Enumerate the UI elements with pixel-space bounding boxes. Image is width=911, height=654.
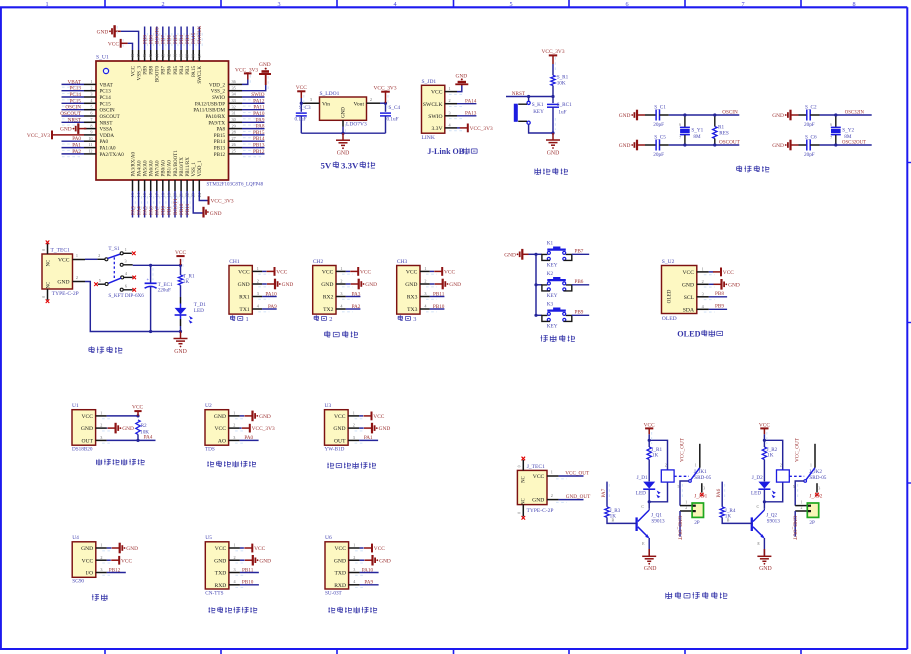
ground — [364, 423, 390, 434]
svg-text:1: 1 — [100, 410, 102, 415]
ground — [204, 207, 222, 218]
relay NC terminal — [816, 483, 818, 492]
svg-text:VCC_3V3: VCC_3V3 — [252, 426, 275, 432]
svg-text:20pF: 20pF — [653, 152, 664, 158]
svg-text:BOOT0: BOOT0 — [155, 66, 161, 83]
svg-text:GND_OUT: GND_OUT — [792, 516, 798, 541]
svg-text:PA7/A0: PA7/A0 — [155, 160, 161, 177]
svg-text:GND: GND — [57, 280, 69, 286]
power flag VCC — [759, 422, 770, 434]
U6 pin 2 GND — [334, 555, 366, 565]
transistor J_Q1 S9013 — [637, 504, 665, 546]
ground — [435, 279, 461, 290]
svg-text:PA3/RX/A0: PA3/RX/A0 — [130, 152, 136, 177]
wire — [669, 114, 740, 116]
svg-text:PA1/A0: PA1/A0 — [100, 146, 117, 152]
svg-text:S_U2: S_U2 — [662, 259, 675, 265]
svg-text:S_LDO1: S_LDO1 — [320, 91, 340, 97]
svg-text:GND: GND — [238, 282, 250, 288]
wire R2 to OUT — [137, 434, 139, 440]
svg-text:1: 1 — [257, 266, 259, 271]
svg-text:VCC_OUT: VCC_OUT — [795, 437, 801, 462]
svg-text:PA10/RX: PA10/RX — [206, 114, 226, 120]
svg-text:2: 2 — [370, 97, 372, 102]
MCU bottom pin 21 PB10/TX — [179, 157, 185, 218]
svg-text:VCC: VCC — [214, 426, 226, 432]
svg-text:1: 1 — [702, 266, 704, 271]
switch T_S1 S_KFT DIP-6X6 — [97, 246, 144, 299]
svg-text:1: 1 — [424, 266, 426, 271]
svg-text:PA2: PA2 — [352, 304, 361, 310]
svg-text:S_U1: S_U1 — [96, 55, 109, 61]
svg-text:GND: GND — [619, 143, 631, 149]
node bus top — [534, 253, 537, 256]
svg-text:2P: 2P — [809, 520, 815, 526]
power flag VCC — [364, 544, 385, 553]
S_U2 pin 4 SDA — [683, 304, 715, 314]
svg-text:1: 1 — [695, 463, 697, 467]
svg-text:GND: GND — [259, 414, 271, 420]
svg-text:NC: NC — [47, 260, 52, 267]
wire VCC down — [648, 434, 650, 440]
svg-text:PA10: PA10 — [265, 292, 277, 298]
wire — [107, 547, 112, 549]
svg-text:2: 2 — [353, 423, 355, 428]
U1 pin 1 VCC — [81, 410, 112, 420]
svg-text:7: 7 — [679, 136, 681, 140]
svg-text:PA1: PA1 — [364, 435, 373, 441]
svg-text:PC14: PC14 — [69, 92, 81, 98]
svg-text:PB11: PB11 — [433, 292, 445, 298]
svg-text:OSC32OUT: OSC32OUT — [842, 141, 866, 146]
svg-text:12: 12 — [88, 149, 92, 154]
svg-text:6: 6 — [625, 1, 628, 8]
relay lever — [804, 468, 815, 483]
svg-text:VCC_3V3: VCC_3V3 — [373, 86, 396, 92]
svg-text:SU-03T: SU-03T — [325, 590, 343, 596]
MCU pin 1 VBAT — [62, 79, 113, 88]
MCU bottom pin 19 PB1/A0 — [166, 160, 172, 218]
wire — [360, 547, 364, 549]
wire — [360, 559, 365, 561]
svg-text:NRST: NRST — [100, 120, 113, 126]
ground — [108, 423, 134, 434]
svg-text:PA3: PA3 — [352, 292, 361, 298]
capacitor T_EC1 220uF electrolytic — [145, 265, 173, 331]
node cap gnd — [551, 131, 554, 134]
svg-text:VCC: VCC — [276, 270, 287, 276]
svg-text:3: 3 — [257, 291, 259, 296]
svg-text:1K: 1K — [183, 279, 190, 285]
svg-text:U3: U3 — [325, 403, 332, 409]
wire pin4 PB10 — [430, 308, 445, 310]
svg-text:Vout: Vout — [354, 102, 365, 108]
module U3 body — [325, 403, 349, 453]
CH1 pin 3 RX1 — [239, 291, 269, 301]
node VCC/R2 — [136, 414, 139, 417]
wire K3 to PB9 — [572, 314, 589, 316]
svg-text:6: 6 — [90, 111, 92, 116]
wire pin2 GND — [430, 283, 435, 285]
J_TEC1 pin 2 GND — [547, 493, 567, 502]
resistor T_R1 1K — [178, 265, 195, 285]
svg-text:35: 35 — [232, 85, 236, 90]
node collector — [648, 500, 651, 503]
power flag VCC_3V3 — [541, 49, 564, 64]
resistor J_R3 1K base — [601, 482, 621, 520]
svg-text:PC15: PC15 — [100, 101, 112, 107]
svg-text:1: 1 — [449, 86, 451, 91]
connector CH3 body — [397, 259, 420, 314]
svg-text:DS18B20: DS18B20 — [72, 447, 93, 453]
U4 pin 2 VCC — [82, 555, 113, 565]
svg-text:GND: GND — [122, 426, 134, 432]
svg-text:S_Y1: S_Y1 — [691, 128, 703, 134]
T_TEC1 pin 1 VCC — [73, 253, 86, 259]
MCU pin 26 PB13 — [214, 142, 265, 151]
svg-text:1: 1 — [90, 79, 92, 84]
connector T_TEC1 TYPE-C body — [42, 248, 79, 297]
svg-text:PA10: PA10 — [362, 567, 374, 573]
ground — [267, 279, 293, 290]
svg-text:GND: GND — [210, 211, 222, 217]
ground — [60, 123, 86, 134]
wire PA10 — [360, 572, 379, 574]
svg-text:PA12: PA12 — [253, 98, 265, 104]
svg-text:GND: GND — [405, 282, 417, 288]
wire VDD_2 to VCC_3V3 — [235, 67, 258, 84]
svg-text:3: 3 — [353, 567, 355, 572]
MCU bottom pin 22 PB11/RX — [185, 157, 191, 218]
title voice broadcast module — [209, 607, 216, 613]
svg-text:3: 3 — [233, 435, 235, 440]
svg-text:3: 3 — [449, 110, 451, 115]
svg-text:0.1uF: 0.1uF — [387, 116, 399, 122]
ruler numbers top — [45, 1, 855, 8]
wire pin4 PA2 — [346, 308, 361, 310]
wire pin1 to switch — [85, 258, 97, 260]
wire GND_OUT down — [676, 511, 682, 541]
svg-text:NC: NC — [522, 476, 527, 483]
node res bottom — [713, 143, 716, 146]
wire — [106, 427, 109, 429]
power flag VCC — [350, 267, 371, 276]
svg-text:2: 2 — [665, 463, 667, 467]
label chuan-kou 3 — [398, 315, 403, 320]
svg-text:VCC: VCC — [533, 474, 545, 480]
svg-text:GND: GND — [619, 113, 631, 119]
NC pin top — [42, 244, 48, 255]
svg-text:VSS_2: VSS_2 — [211, 89, 226, 95]
svg-text:LDO7V3: LDO7V3 — [346, 122, 367, 128]
MCU pin 27 PB14 — [214, 136, 265, 145]
MCU bottom pin 24 VDD_1 — [197, 160, 203, 197]
MCU bottom pin 20 PB2/BOOT1 — [173, 150, 179, 218]
svg-text:2: 2 — [340, 279, 342, 284]
title voice recognition module — [328, 607, 335, 613]
push button K1 KEY — [542, 241, 572, 269]
node key branch — [527, 95, 530, 98]
svg-text:2: 2 — [98, 253, 100, 258]
CH3 pin 4 TX3 — [407, 304, 437, 314]
svg-text:SDA: SDA — [683, 307, 694, 313]
svg-text:PA10: PA10 — [253, 111, 265, 117]
svg-text:PA0: PA0 — [100, 139, 109, 145]
wire gnd to bus — [522, 253, 528, 255]
svg-text:PA2: PA2 — [72, 149, 81, 155]
svg-text:R2: R2 — [141, 423, 147, 429]
connector S_U2 OLED body — [662, 259, 697, 322]
MCU pin 33 PA12/USB/DP — [195, 98, 265, 107]
svg-text:PC15: PC15 — [69, 98, 81, 104]
svg-text:47: 47 — [136, 54, 141, 58]
capacitor S_C2 20pF — [799, 104, 820, 128]
MCU pin 12 PA2/TX/A0 — [62, 149, 125, 158]
MCU pin 3 PC14 — [62, 92, 112, 101]
MCU top pin 47 VSS_3 — [136, 50, 142, 80]
pin 2 Vout — [367, 97, 386, 103]
svg-text:TDS: TDS — [205, 447, 215, 453]
power flag VCC_3V3 — [460, 124, 493, 133]
svg-text:48: 48 — [130, 54, 135, 58]
MCU top pin 43 PB7 — [160, 27, 166, 75]
svg-text:U1: U1 — [72, 403, 79, 409]
svg-text:KEY: KEY — [533, 109, 544, 115]
svg-text:VCC: VCC — [759, 422, 770, 428]
svg-text:RX2: RX2 — [323, 295, 334, 301]
svg-text:20pF: 20pF — [804, 152, 815, 158]
svg-text:1: 1 — [340, 266, 342, 271]
ground — [642, 549, 656, 572]
svg-text:GND: GND — [126, 546, 138, 552]
S_U2 pin 1 VCC — [682, 266, 714, 276]
svg-text:CH3: CH3 — [397, 259, 408, 265]
svg-text:VCC_3V3: VCC_3V3 — [211, 199, 234, 205]
svg-text:3: 3 — [310, 97, 312, 102]
wire — [240, 547, 244, 549]
wire pin3 PB11 — [430, 296, 445, 298]
regulator S_LDO1 body — [320, 91, 368, 128]
svg-text:GND: GND — [334, 558, 346, 564]
transistor J_Q2 S9013 — [752, 504, 780, 546]
svg-text:U5: U5 — [205, 535, 212, 541]
wire VCC down — [763, 434, 765, 440]
svg-text:PB9: PB9 — [142, 66, 148, 75]
connector CH2 body — [313, 259, 336, 314]
svg-text:SWCLK: SWCLK — [197, 66, 203, 84]
wire pin1 VCC — [346, 270, 350, 272]
svg-text:PB5: PB5 — [173, 66, 179, 75]
ruler ticks top — [105, 0, 801, 7]
svg-text:3: 3 — [413, 316, 416, 323]
CH2 pin 3 RX2 — [323, 291, 353, 301]
svg-text:TXD: TXD — [335, 571, 347, 577]
MCU bottom pin 17 PA7/A0 — [154, 160, 160, 218]
svg-text:VCC_3V3: VCC_3V3 — [27, 133, 50, 139]
node bus — [534, 283, 537, 286]
NC pin bottom — [42, 289, 48, 300]
MCU bottom pin 13 PA3/RX/A0 — [130, 152, 136, 218]
title serial port circuit — [325, 331, 330, 337]
wire common to connector — [795, 481, 804, 506]
svg-text:SWIO: SWIO — [251, 92, 265, 98]
wire pin3 PB8 — [709, 296, 727, 298]
svg-text:PB15: PB15 — [253, 130, 265, 136]
svg-text:6: 6 — [125, 283, 127, 288]
wire — [820, 144, 872, 146]
relay NO terminal VCC_OUT — [680, 437, 700, 467]
svg-text:10: 10 — [88, 136, 92, 141]
MCU pin 8 VSSA — [84, 123, 113, 132]
relay NC terminal — [701, 483, 703, 492]
svg-text:S_RC1: S_RC1 — [557, 102, 572, 108]
svg-text:B: B — [612, 518, 615, 523]
wire bus to K1 — [536, 253, 542, 255]
svg-text:39: 39 — [185, 54, 190, 58]
svg-text:S_C2: S_C2 — [805, 104, 817, 110]
svg-text:45: 45 — [148, 54, 153, 58]
svg-text:40: 40 — [179, 54, 184, 58]
power flag VCC — [111, 556, 132, 565]
svg-text:LINK: LINK — [422, 135, 435, 141]
wire VSSA to GND — [84, 128, 86, 130]
svg-text:3: 3 — [90, 92, 92, 97]
svg-text:GND: GND — [282, 282, 294, 288]
U6 pin 1 VCC — [334, 543, 365, 553]
power flag VCC — [175, 250, 186, 265]
U5 pin 2 GND — [214, 555, 246, 565]
MCU bottom pin 18 PB0/A0 — [160, 160, 166, 218]
svg-text:PB3: PB3 — [185, 66, 191, 75]
svg-text:RES: RES — [719, 130, 729, 136]
wire key to rail — [529, 124, 553, 133]
svg-text:SWIO: SWIO — [428, 114, 442, 120]
svg-text:VCC_3V3: VCC_3V3 — [470, 126, 493, 132]
wire — [240, 559, 245, 561]
wire — [669, 144, 740, 146]
ruler ticks right — [907, 163, 911, 484]
wire R to LED — [648, 460, 650, 482]
svg-text:TX2: TX2 — [323, 307, 333, 313]
svg-text:VBAT: VBAT — [67, 79, 81, 85]
title servo — [92, 594, 99, 600]
svg-text:GND: GND — [342, 107, 347, 118]
svg-text:2: 2 — [257, 279, 259, 284]
U5 pin 3 TXD — [215, 567, 246, 577]
svg-text:J_D2: J_D2 — [752, 475, 763, 481]
MCU pin 10 PA0 — [62, 136, 109, 145]
CH3 pin 3 RX3 — [407, 291, 437, 301]
svg-text:GND: GND — [772, 113, 784, 119]
U3 pin 3 OUT — [334, 435, 365, 445]
wire pin3 PA13 — [457, 115, 476, 117]
wire VCC to coil — [649, 440, 667, 470]
wire pin4 to VCC_3V3 — [457, 127, 460, 129]
MCU top pin 37 SWCLK — [197, 26, 203, 84]
wire PA9 — [360, 584, 379, 586]
wire VCC to pin48 — [128, 43, 133, 50]
title OLED display — [677, 329, 722, 338]
svg-text:1: 1 — [100, 543, 102, 548]
node VCC branch — [648, 439, 651, 442]
wire — [107, 559, 111, 561]
svg-text:OLED: OLED — [662, 316, 677, 322]
MCU pin 35 VSS_2 — [211, 85, 242, 94]
wire VSS_2 to GND — [242, 85, 266, 91]
svg-text:1: 1 — [234, 543, 236, 548]
svg-text:U2: U2 — [205, 403, 212, 409]
wire K1 to PB7 — [572, 253, 589, 255]
LED J_D2 — [751, 475, 776, 498]
ground — [757, 549, 771, 572]
svg-text:PA0: PA0 — [244, 435, 253, 441]
svg-text:1: 1 — [76, 253, 78, 258]
svg-text:GND: GND — [365, 282, 377, 288]
wire pin4 PB9 — [709, 308, 727, 310]
svg-text:OSCIN: OSCIN — [722, 110, 738, 116]
wire emitter to GND — [648, 538, 650, 556]
svg-text:VCC: VCC — [215, 546, 227, 552]
svg-text:PC13: PC13 — [100, 89, 112, 95]
U1 pin 2 GND — [81, 423, 113, 433]
svg-text:PB9: PB9 — [574, 309, 583, 315]
NC pin bottom — [518, 505, 524, 517]
wire switch output rail — [133, 264, 181, 266]
svg-text:PA13: PA13 — [465, 111, 477, 117]
svg-text:1: 1 — [801, 500, 803, 504]
relay NO terminal VCC_OUT — [795, 437, 815, 467]
svg-text:PB13: PB13 — [214, 146, 226, 152]
no-connect X — [132, 252, 136, 256]
ground — [714, 279, 740, 290]
svg-text:VCC: VCC — [175, 250, 186, 256]
node crystal top — [683, 113, 686, 116]
svg-text:PA12/USB/DP: PA12/USB/DP — [195, 101, 225, 107]
svg-text:1K: 1K — [652, 452, 659, 458]
wire VCC to coil — [764, 440, 782, 470]
U3 pin 2 GND — [333, 423, 365, 433]
svg-text:J_JD1: J_JD1 — [694, 494, 707, 500]
svg-text:OSCIN: OSCIN — [65, 105, 81, 111]
module U2 body — [205, 403, 229, 453]
MCU pin 2 PC13 — [62, 85, 112, 94]
node OUT — [136, 439, 139, 442]
svg-text:B: B — [727, 518, 730, 523]
title relay control circuit — [665, 592, 672, 598]
resistor R2 10K — [136, 420, 149, 436]
svg-text:TYPE-C-2P: TYPE-C-2P — [527, 508, 554, 514]
MCU bottom pin 14 PA4/A0 — [136, 160, 142, 218]
svg-text:VCC_OUT: VCC_OUT — [680, 437, 686, 462]
svg-text:TX3: TX3 — [407, 307, 417, 313]
ground — [546, 133, 560, 157]
ground — [772, 140, 798, 151]
svg-text:VCC: VCC — [108, 41, 119, 47]
svg-text:VCC: VCC — [360, 270, 371, 276]
svg-text:OLED: OLED — [677, 329, 700, 338]
svg-text:S_Y2: S_Y2 — [842, 128, 854, 134]
svg-text:7: 7 — [90, 117, 92, 122]
svg-text:SCL: SCL — [684, 295, 695, 301]
svg-text:AO: AO — [218, 439, 226, 445]
CH1 pin 4 TX1 — [239, 304, 269, 314]
svg-text:TYPE-C-2P: TYPE-C-2P — [52, 291, 79, 297]
svg-text:0: 0 — [518, 512, 522, 514]
svg-text:PA15: PA15 — [191, 66, 197, 78]
svg-text:PB11: PB11 — [242, 567, 254, 573]
node bus — [534, 314, 537, 317]
title level detect module — [327, 463, 334, 469]
